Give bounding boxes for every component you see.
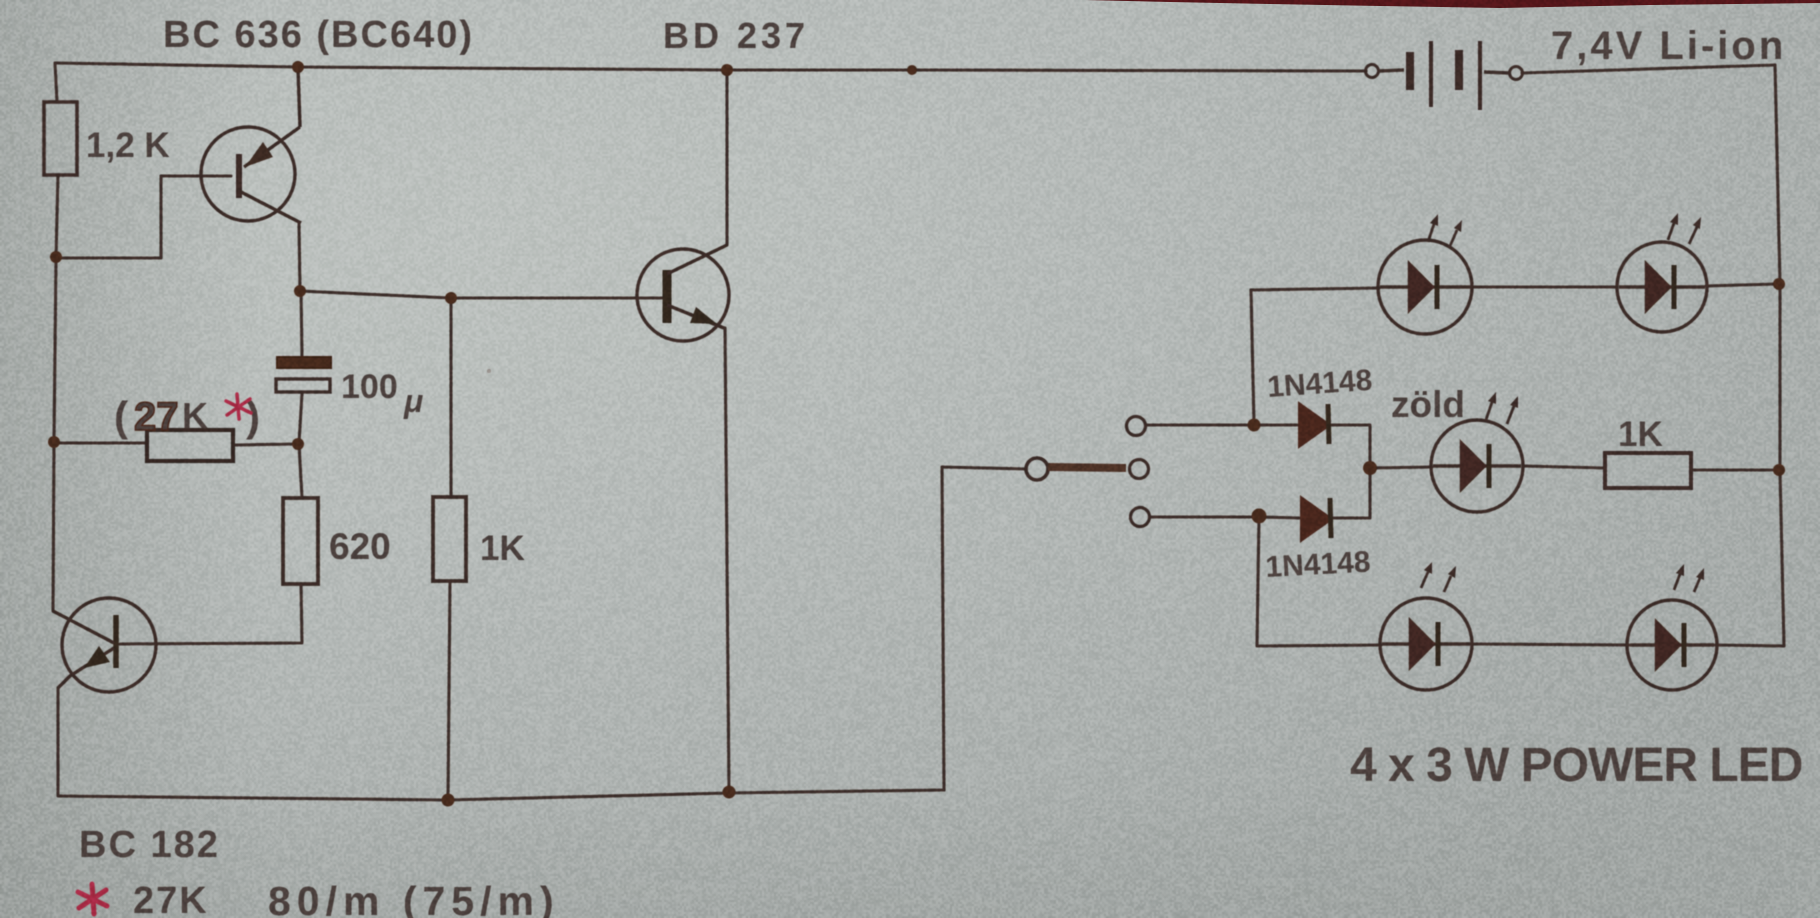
wire: node to top LED row	[1251, 290, 1254, 425]
node top-left	[292, 61, 304, 73]
node diode join	[1363, 461, 1377, 475]
emission arrows green LED	[1486, 392, 1518, 424]
wire: BC636 collector down	[299, 223, 300, 291]
wire: upper switch throw to node	[1146, 423, 1297, 426]
transistor Q1 BC636	[201, 67, 301, 223]
wire: right rail	[1775, 65, 1784, 646]
node 27K left	[48, 436, 60, 448]
wire: 27K row left	[54, 441, 146, 444]
battery 7.4V Li-ion	[1366, 24, 1787, 110]
wire: 27K row right	[234, 444, 298, 445]
node 1K top	[445, 292, 457, 304]
node right rail top	[1773, 278, 1785, 290]
node switch lower	[1252, 509, 1267, 524]
wire: bottom LED row left	[1257, 645, 1381, 646]
wire: left rail below 1.2K	[53, 175, 58, 611]
wire: 620 bottom to BC182 base	[120, 584, 302, 644]
label footnote 27K 80/m	[133, 878, 560, 918]
emission arrows L3	[1421, 562, 1456, 592]
wire: 620 top lead	[299, 444, 302, 498]
wire: green LED to 1K	[1524, 466, 1605, 468]
red table edge top right	[1085, 0, 1820, 8]
red asterisk footnote	[78, 884, 107, 914]
wire: cap bottom lead	[299, 393, 302, 443]
red asterisk in (27K*)	[226, 394, 251, 419]
resistor 1K left	[433, 497, 525, 581]
resistor 27K	[147, 430, 233, 461]
emission arrows L1	[1428, 214, 1462, 246]
wire: top LED row middle	[1469, 285, 1617, 288]
LED L4 bottom row right	[1627, 600, 1717, 690]
wire: node D to green LED	[1370, 467, 1432, 468]
wire: upper diode out	[1331, 425, 1370, 466]
transistor Q2 BD237	[637, 245, 729, 341]
node base BC636	[50, 251, 62, 263]
capacitor 100u	[276, 357, 423, 419]
diode D2 1N4148 lower	[1265, 497, 1372, 584]
node top-mid	[721, 64, 733, 76]
wire: BC636 base link	[56, 176, 231, 258]
wire: left rail top to 1.2K	[55, 63, 57, 102]
diode D1 1N4148 upper	[1266, 364, 1373, 447]
wire: node to bottom LED row	[1257, 517, 1259, 646]
resistor 1K right	[1605, 415, 1691, 488]
node switch upper	[1248, 419, 1261, 432]
label (27K*)	[114, 393, 260, 440]
wire: BD237 emitter down	[725, 328, 729, 792]
wire: lower diode out	[1333, 470, 1370, 518]
switch lower throw terminal	[1131, 508, 1150, 527]
emission arrows L2	[1668, 213, 1701, 244]
wire: 1K bottom lead	[448, 581, 450, 799]
wire: node B to BD237 base	[300, 291, 662, 298]
emission arrows L4	[1674, 564, 1704, 592]
LED L2 top row right	[1617, 242, 1707, 332]
wire: battery to top-right corner	[1522, 65, 1775, 73]
node bottom 1K	[442, 794, 455, 807]
wire: BD237 collector up	[725, 70, 728, 245]
wire: top rail	[55, 63, 1366, 71]
switch upper throw terminal	[1127, 417, 1146, 436]
wire: cap top lead	[301, 291, 302, 356]
resistor 620	[283, 498, 391, 584]
node 27K right	[292, 438, 304, 450]
wire: switch common row	[942, 467, 1025, 469]
wire: bottom LED row right	[1715, 645, 1784, 646]
switch common pole	[1026, 458, 1149, 480]
node emitter BC636	[294, 285, 306, 297]
wire: 1K left column	[449, 298, 452, 497]
LED green (zold)	[1431, 420, 1523, 512]
wire: BC182 emitter down	[56, 688, 59, 794]
wire: top LED row left	[1251, 288, 1379, 290]
wire: bottom LED row middle	[1471, 644, 1629, 645]
wire: bottom rail	[58, 790, 944, 800]
wire: switch feed vertical	[942, 467, 944, 790]
wire: lower switch throw to node	[1150, 517, 1299, 518]
LED L3 bottom row left	[1380, 598, 1472, 690]
node top-extra	[907, 65, 917, 75]
LED L1 top row left	[1378, 240, 1472, 334]
wire: top LED row right	[1706, 284, 1777, 286]
stray pen dot	[487, 369, 491, 373]
node right rail mid	[1773, 464, 1785, 476]
transistor Q3 BC182	[53, 598, 156, 692]
resistor R 1.2K	[44, 102, 170, 175]
node bottom BD237	[723, 786, 736, 799]
wire: 1K to right rail	[1691, 468, 1777, 471]
